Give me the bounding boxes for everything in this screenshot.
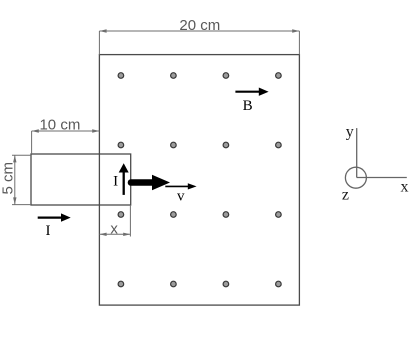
conducting loop rectangle (10 cm x 5 cm): [31, 154, 131, 205]
B arrow: [235, 88, 268, 96]
svg-text:x: x: [110, 220, 118, 237]
svg-text:x: x: [401, 179, 409, 196]
svg-text:I: I: [46, 223, 51, 239]
coordinate axes: [345, 128, 406, 188]
svg-text:5 cm: 5 cm: [0, 162, 16, 195]
svg-text:10 cm: 10 cm: [39, 117, 80, 134]
dimension x (overlap): [99, 205, 130, 237]
thick velocity arrow: [131, 175, 170, 190]
field region outline (20 cm square): [99, 55, 299, 306]
current arrow I (inside loop, pointing up): [119, 163, 129, 195]
dimension 20 cm: [99, 29, 299, 54]
v arrow: [165, 183, 196, 189]
dimension 10 cm: [32, 129, 100, 154]
svg-text:y: y: [346, 124, 354, 141]
B-field dots (out of page grid): [118, 73, 281, 287]
svg-text:20 cm: 20 cm: [179, 17, 220, 34]
svg-text:I: I: [113, 174, 118, 190]
svg-text:B: B: [243, 98, 253, 114]
dimension 5 cm: [12, 155, 31, 204]
svg-text:v: v: [177, 189, 185, 205]
current arrow I (bottom, pointing right): [38, 213, 71, 221]
svg-text:z: z: [342, 186, 349, 203]
